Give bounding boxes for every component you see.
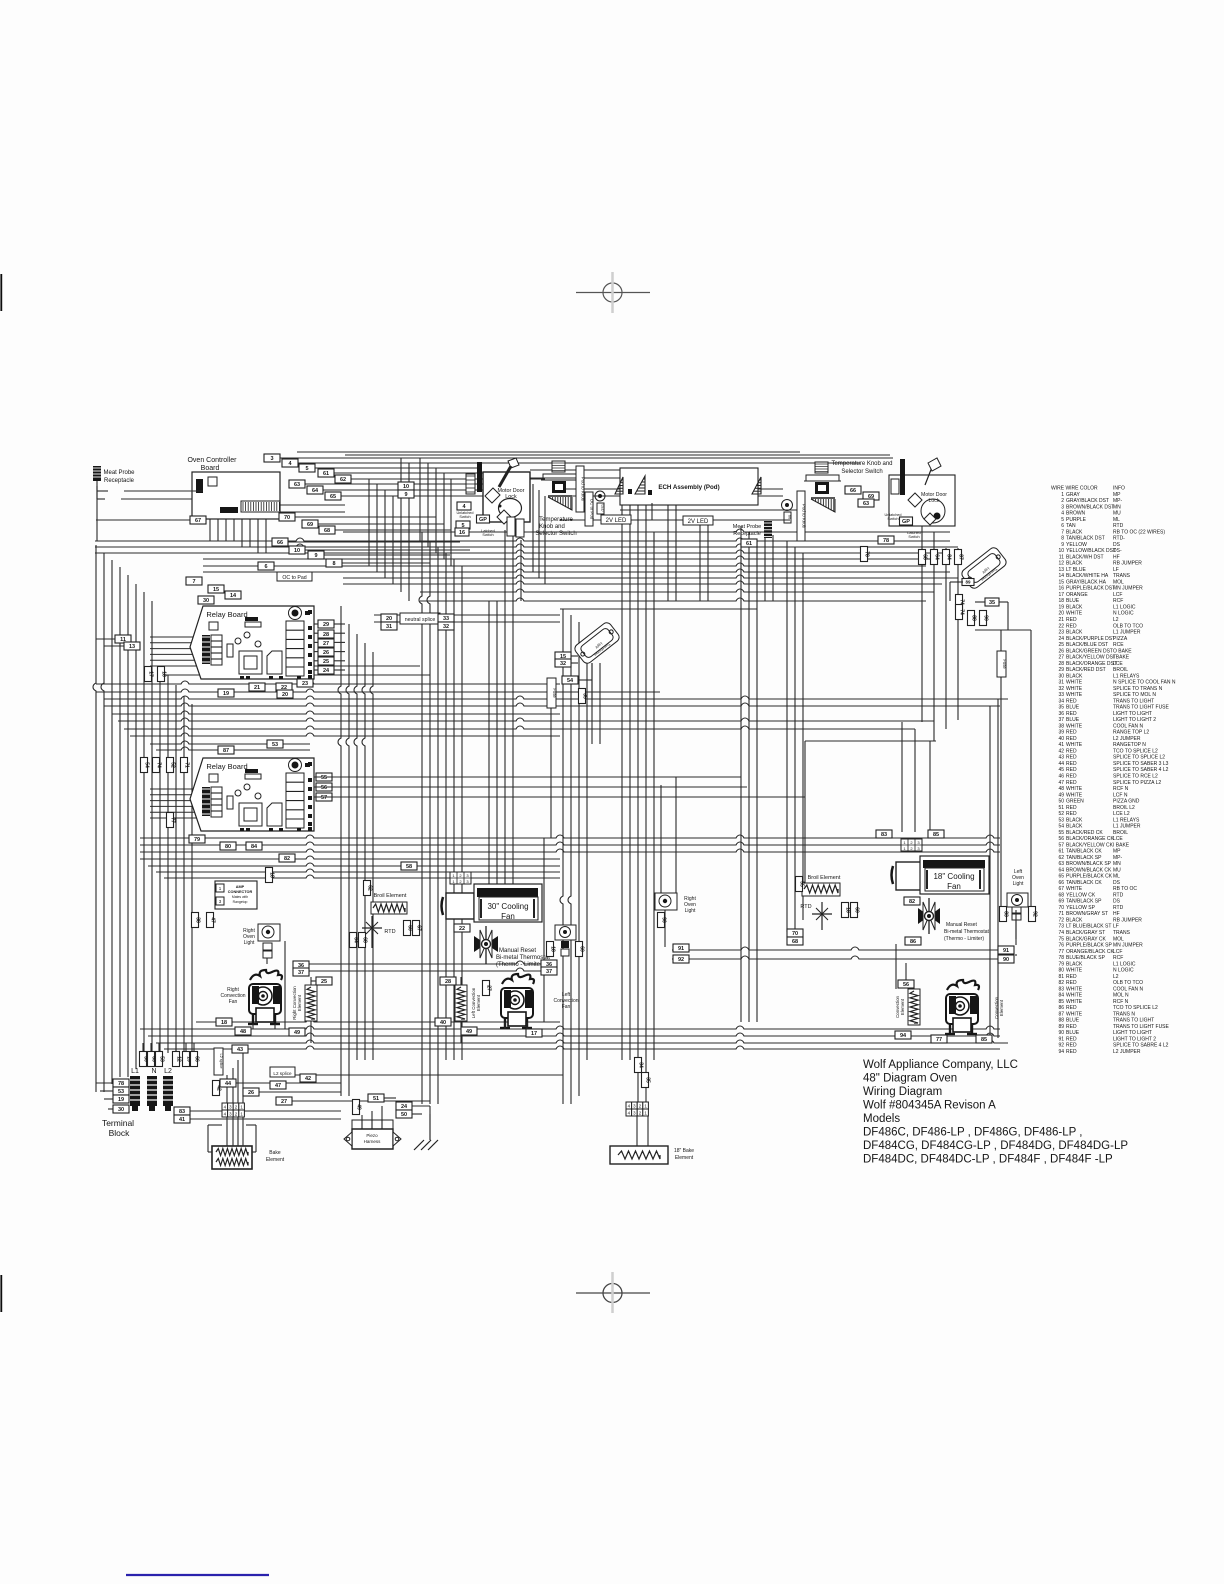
wire bus vertical 3 x=112	[111, 560, 113, 1084]
svg-text:17: 17	[1058, 592, 1064, 598]
wire bus vertical 70 x=159	[158, 1043, 160, 1051]
ref box 62 (broil 1)	[364, 881, 371, 896]
wire from controller pin 6	[305, 483, 500, 485]
svg-text:54: 54	[144, 762, 150, 768]
svg-text:30" Cooling: 30" Cooling	[487, 902, 528, 911]
svg-text:31: 31	[1058, 680, 1064, 686]
svg-text:24: 24	[323, 668, 330, 674]
wire from controller pin 16	[342, 562, 430, 564]
ref box 89 (T2)	[962, 579, 974, 586]
svg-text:90: 90	[1058, 1030, 1064, 1036]
wire bus horizontal 14 y=666	[160, 663, 420, 666]
wire bus vertical 82 x=401	[400, 458, 402, 592]
svg-text:13: 13	[1058, 567, 1064, 573]
svg-text:65: 65	[330, 494, 336, 500]
wire bus vertical 58 x=668	[667, 505, 669, 601]
ref box 60 (broil1)	[404, 921, 411, 936]
wire bus horizontal 12 y=615	[374, 614, 560, 616]
wire bus horizontal 63 y=496	[560, 495, 783, 497]
svg-text:DF484CG, DF484CG-LP , DF484DG,: DF484CG, DF484CG-LP , DF484DG, DF484DG-L…	[863, 1140, 1128, 1152]
terminal block TB1	[102, 1068, 173, 1138]
svg-text:Switch: Switch	[887, 517, 898, 521]
svg-text:OLB TO TCO: OLB TO TCO	[1113, 623, 1143, 629]
ref box 64 (M2 row)	[931, 550, 938, 565]
wire bus horizontal 59 y=512	[210, 511, 345, 513]
piezo spark module A2	[344, 1120, 401, 1149]
wire bus horizontal 18 y=684	[96, 681, 560, 684]
ref box 18b (RB2)	[266, 868, 273, 883]
svg-text:26: 26	[1058, 648, 1064, 654]
svg-text:23: 23	[302, 681, 308, 687]
svg-text:91: 91	[1003, 948, 1009, 954]
wire T2 to boxes	[950, 581, 963, 583]
svg-text:12: 12	[1058, 561, 1064, 567]
svg-text:PURPLE/BLACK SP: PURPLE/BLACK SP	[1066, 943, 1113, 949]
wire drop controller 1	[419, 458, 421, 541]
svg-text:MN JUMPER: MN JUMPER	[1113, 943, 1143, 949]
wire bus horizontal 62 y=489	[560, 488, 783, 490]
svg-text:Manual Reset: Manual Reset	[499, 948, 536, 954]
svg-text:10: 10	[294, 548, 300, 554]
ref box 69 (M2)	[863, 492, 879, 500]
ref box 63 (controller area)	[289, 480, 305, 488]
light transformer T2	[960, 546, 1008, 590]
wire drop controller 4	[443, 473, 445, 559]
svg-text:LIGHT TO LIGHT: LIGHT TO LIGHT	[1113, 711, 1152, 717]
svg-text:O BAKE: O BAKE	[1113, 648, 1132, 654]
svg-text:37: 37	[1058, 717, 1064, 723]
svg-text:RED: RED	[1066, 1024, 1077, 1030]
svg-text:GREEN: GREEN	[1066, 799, 1084, 805]
svg-text:SPLICE TO RCE L2: SPLICE TO RCE L2	[1113, 774, 1158, 780]
svg-text:Light: Light	[244, 940, 255, 946]
svg-text:83: 83	[1003, 911, 1009, 917]
svg-text:Switch: Switch	[908, 535, 919, 539]
svg-text:67: 67	[1058, 886, 1064, 892]
svg-text:53: 53	[159, 1056, 165, 1062]
ref box 27 (bottom)	[276, 1097, 292, 1105]
svg-text:26: 26	[248, 1090, 254, 1096]
wire from controller pin 14	[323, 554, 450, 556]
wire bus horizontal 33 y=859	[140, 856, 560, 859]
ref box 18 (broil 2)	[842, 903, 849, 918]
svg-text:26: 26	[323, 650, 329, 656]
svg-text:85: 85	[981, 1037, 987, 1043]
svg-text:5: 5	[305, 466, 308, 472]
ref box 64 (RTD1)	[350, 933, 357, 948]
svg-text:45: 45	[1058, 767, 1064, 773]
ref box 65 (controller area)	[325, 492, 341, 500]
svg-text:YELLOW CK: YELLOW CK	[1066, 892, 1096, 898]
svg-text:94: 94	[900, 1033, 907, 1039]
ref box 49 (bottom center)	[461, 1027, 477, 1035]
ref box 40 (bottom)	[435, 1018, 451, 1026]
svg-text:DS: DS	[1113, 899, 1121, 905]
svg-text:MN: MN	[1113, 861, 1121, 867]
ref box 68 (RTD2)	[787, 937, 803, 945]
wire bus vertical 21 x=438	[437, 547, 439, 1104]
svg-text:6: 6	[264, 564, 267, 570]
svg-text:18: 18	[1058, 598, 1064, 604]
wire bus vertical 77 x=896	[895, 944, 897, 989]
svg-text:51: 51	[1058, 805, 1064, 811]
svg-text:ORANGE: ORANGE	[1066, 592, 1088, 598]
svg-text:Selector Switch: Selector Switch	[535, 531, 576, 537]
svg-text:42: 42	[1058, 748, 1064, 754]
svg-text:1: 1	[1061, 492, 1064, 498]
wire bus horizontal 28 y=787	[334, 786, 747, 788]
svg-text:TRANS TO LIGHT FUSE: TRANS TO LIGHT FUSE	[1113, 1024, 1170, 1030]
svg-text:34: 34	[1058, 698, 1064, 704]
ref box 54 (T1)	[562, 676, 578, 684]
ref box 9 (top right)	[398, 490, 414, 498]
wire bus vertical 34 x=741	[740, 526, 742, 1022]
registration mark bottom center	[603, 1284, 622, 1303]
svg-text:BLACK/ORANGE DST: BLACK/ORANGE DST	[1066, 661, 1117, 667]
ref box 28 (relay board 1 area)	[318, 630, 334, 638]
pod-to-knob cable label 2	[797, 491, 805, 541]
wire bus vertical 14 x=341	[338, 606, 341, 1096]
svg-text:WHITE: WHITE	[1066, 968, 1083, 974]
svg-text:BROWN/BLACK CK: BROWN/BLACK CK	[1066, 867, 1112, 873]
wire bus horizontal 66 y=520	[711, 519, 790, 521]
wire bus horizontal 8 y=578	[343, 575, 958, 578]
svg-text:MOL: MOL	[1113, 579, 1124, 585]
wire bus horizontal 3 y=547	[95, 544, 958, 547]
ref box 70 (RTD2)	[787, 929, 803, 937]
ref box 6 (controller area)	[258, 562, 274, 570]
wire bus horizontal 34 y=866	[148, 863, 560, 866]
svg-text:63: 63	[294, 482, 300, 488]
svg-text:36: 36	[1058, 711, 1064, 717]
wire bus horizontal 24 y=729	[124, 726, 915, 729]
svg-text:BLACK: BLACK	[1066, 529, 1083, 535]
relay board RB1	[150, 606, 314, 679]
wire bus horizontal 17 y=750	[156, 747, 310, 750]
svg-text:48: 48	[240, 1029, 246, 1035]
ref box 43	[232, 1045, 248, 1053]
svg-text:53: 53	[118, 1089, 124, 1095]
svg-text:L1 LOGIC: L1 LOGIC	[1113, 604, 1136, 610]
wire bus vertical 42 x=805	[804, 741, 806, 883]
svg-text:(Thermo - Limiter): (Thermo - Limiter)	[944, 936, 984, 942]
svg-text:RED: RED	[1066, 811, 1077, 817]
svg-text:7: 7	[192, 579, 195, 585]
svg-text:41: 41	[179, 1117, 185, 1123]
wire bus horizontal 64 y=510	[620, 509, 797, 511]
wire bus vertical 90 x=210	[209, 519, 211, 541]
wire bus vertical 57 x=497	[496, 601, 498, 891]
wire bus vertical 45 x=922	[921, 526, 923, 722]
svg-text:20: 20	[386, 616, 392, 622]
ref box 19 (TB)	[113, 1095, 129, 1103]
svg-text:BLUE: BLUE	[1066, 717, 1080, 723]
svg-text:RB TO OC (22 WIRES): RB TO OC (22 WIRES)	[1113, 529, 1165, 535]
wire left fan feet	[504, 1022, 506, 1029]
svg-text:PURPLE: PURPLE	[1066, 517, 1087, 523]
wire drop controller 7	[538, 490, 540, 578]
svg-text:TRANS: TRANS	[1113, 930, 1131, 936]
svg-text:SPLICE TO MOL N: SPLICE TO MOL N	[1113, 692, 1156, 698]
svg-text:35: 35	[645, 1077, 651, 1083]
wire bus horizontal 5 y=559	[203, 556, 934, 559]
svg-text:RTD-: RTD-	[1113, 536, 1125, 542]
svg-text:YELLOW SP: YELLOW SP	[1066, 905, 1096, 911]
2V LED label 1	[601, 515, 631, 524]
wire bus horizontal 44 y=1043	[156, 1040, 1008, 1043]
wire bus vertical 84 x=765	[764, 530, 766, 601]
svg-text:3: 3	[1061, 504, 1064, 510]
svg-text:55: 55	[799, 881, 805, 887]
svg-text:87: 87	[223, 748, 229, 754]
ref box 9 (controller area)	[308, 551, 324, 559]
wire bus vertical 2 x=104	[101, 553, 104, 1092]
svg-text:40: 40	[1058, 736, 1064, 742]
wire bus vertical 56 x=489	[488, 601, 490, 891]
svg-text:N LOGIC: N LOGIC	[1113, 968, 1134, 974]
wire drop controller 8	[544, 496, 546, 584]
svg-text:68: 68	[324, 528, 330, 534]
svg-text:9: 9	[404, 492, 407, 498]
svg-text:RED: RED	[1066, 974, 1077, 980]
svg-text:Terminal: Terminal	[102, 1118, 134, 1128]
18in cooling fan B2	[892, 856, 990, 894]
svg-text:19: 19	[223, 691, 229, 697]
wire from controller pin 9	[295, 516, 436, 518]
svg-text:70: 70	[1058, 905, 1064, 911]
L2 splice vertical	[214, 1048, 223, 1075]
svg-text:MP-: MP-	[1113, 498, 1123, 504]
svg-text:47: 47	[210, 917, 216, 923]
ref box 47 (bottom)	[270, 1081, 286, 1089]
left margin tick lower	[0, 1275, 2, 1312]
wire bus vertical 55 x=521	[520, 540, 522, 601]
ground symbol	[413, 1114, 439, 1150]
temperature knob and selector switch S1	[535, 461, 578, 537]
ref box 87 (relay board 1 area)	[218, 746, 234, 754]
svg-text:5: 5	[1061, 517, 1064, 523]
wire bus vertical 73 x=194	[193, 1043, 195, 1051]
wire bus horizontal 19 y=692	[96, 689, 660, 692]
svg-text:SPLICE TO PIZZA L2: SPLICE TO PIZZA L2	[1113, 780, 1161, 786]
svg-text:N SPLICE TO COOL FAN N: N SPLICE TO COOL FAN N	[1113, 680, 1176, 686]
svg-text:39: 39	[1058, 730, 1064, 736]
svg-text:L1 JUMPER: L1 JUMPER	[1113, 824, 1141, 830]
manual reset bi-metal thermostat TH1	[474, 926, 550, 968]
svg-text:Fuse: Fuse	[1002, 659, 1007, 669]
30in cooling fan B1	[442, 884, 543, 922]
svg-text:64: 64	[312, 488, 319, 494]
wire bus horizontal 40 y=971	[309, 968, 545, 971]
wire bus vertical 69 x=151	[150, 1043, 152, 1051]
svg-text:27: 27	[323, 641, 329, 647]
svg-text:BLUE: BLUE	[1066, 598, 1080, 604]
wire bus horizontal 23 y=721	[118, 718, 934, 721]
svg-text:neutral splice: neutral splice	[405, 617, 436, 623]
wire bus horizontal 46 y=1083	[96, 1082, 113, 1084]
registration mark top center	[603, 283, 622, 302]
wire from controller pin 10	[318, 523, 444, 525]
wire bus horizontal 30 y=838	[140, 835, 1000, 838]
svg-text:RB TO OC: RB TO OC	[1113, 886, 1137, 892]
meat probe receptacle J1	[93, 466, 135, 499]
ref box 74 (T2)	[956, 595, 963, 610]
svg-text:TAN/BLACK CK: TAN/BLACK CK	[1066, 880, 1102, 886]
svg-text:RB JUMPER: RB JUMPER	[1113, 917, 1142, 923]
svg-text:73: 73	[1058, 924, 1064, 930]
wire bus horizontal 10 y=592	[420, 589, 934, 592]
svg-text:47: 47	[1058, 780, 1064, 786]
wire T1 leads	[571, 655, 578, 657]
svg-text:WHITE: WHITE	[1066, 611, 1083, 617]
wire bus horizontal 9 y=584	[343, 581, 942, 584]
svg-text:MP-: MP-	[1113, 855, 1123, 861]
wire bus vertical 71 x=176	[175, 1043, 177, 1051]
wire color legend table	[1051, 486, 1176, 1055]
wire bus vertical 87 x=233	[232, 1068, 234, 1103]
ref box 83 (TB)	[174, 1107, 190, 1115]
svg-text:28: 28	[323, 632, 329, 638]
wire bus vertical 28 x=587	[586, 663, 588, 1060]
wire bus horizontal 42 y=1029	[140, 1026, 1000, 1029]
svg-text:60: 60	[854, 907, 860, 913]
wire bus horizontal 71 y=455	[345, 454, 890, 456]
wire bus vertical 17 x=365	[362, 643, 365, 1060]
wire bus horizontal 39 y=964	[309, 961, 545, 964]
wire bus horizontal 1 y=532	[343, 529, 950, 532]
neutral splice label	[400, 613, 440, 624]
wire bus vertical 15 x=349	[346, 624, 349, 1096]
svg-text:RED: RED	[1066, 711, 1077, 717]
svg-text:71: 71	[1058, 911, 1064, 917]
svg-text:30: 30	[203, 598, 209, 604]
svg-text:52: 52	[170, 762, 176, 768]
wire bus vertical 49 x=990	[989, 706, 991, 1038]
svg-text:69: 69	[1058, 899, 1064, 905]
ref box 27 (relay board 1 area)	[318, 639, 334, 647]
svg-text:BLACK/BLUE DST: BLACK/BLUE DST	[1066, 642, 1108, 648]
svg-text:MN: MN	[1113, 504, 1121, 510]
svg-text:LT BLUE/BLACK ST: LT BLUE/BLACK ST	[1066, 924, 1111, 930]
svg-text:MN JUMPER: MN JUMPER	[1113, 586, 1143, 592]
bake element E6	[212, 1146, 285, 1169]
svg-text:BROWN/BLACK SP: BROWN/BLACK SP	[1066, 861, 1112, 867]
ref box 15 (T1)	[555, 652, 571, 660]
wire bus horizontal 50 y=1111	[190, 1110, 341, 1112]
wire bus vertical 7 x=144	[143, 592, 145, 1062]
wire bus vertical 35 x=749	[748, 532, 750, 1022]
ref box 86	[905, 937, 921, 945]
ref box 17 (bottom)	[526, 1029, 542, 1037]
ref box 84 (relay board 2 area)	[246, 842, 262, 850]
svg-text:WHITE: WHITE	[1066, 999, 1083, 1005]
ref box 82 (relay board 2 area)	[279, 854, 295, 862]
svg-text:55: 55	[321, 775, 327, 781]
svg-text:YELLOW/BLACK DST: YELLOW/BLACK DST	[1066, 548, 1116, 554]
svg-text:14: 14	[230, 593, 237, 599]
svg-text:BROWN/BLACK DST: BROWN/BLACK DST	[1066, 504, 1114, 510]
wire bus vertical 83 x=409	[408, 463, 410, 601]
svg-text:BLACK/GRAY ST: BLACK/GRAY ST	[1066, 930, 1105, 936]
svg-text:91: 91	[1058, 1036, 1064, 1042]
wire bus horizontal 47 y=1091	[100, 1090, 113, 1092]
svg-text:18: 18	[161, 671, 167, 677]
svg-text:Receptacle: Receptacle	[104, 478, 135, 484]
18in bake element E7	[610, 1146, 694, 1164]
ref box 79 (relay board 2 area)	[189, 835, 205, 843]
ref box 74 (mid row)	[153, 758, 160, 773]
svg-text:58: 58	[406, 864, 412, 870]
wire bus vertical 46 x=934	[933, 532, 935, 741]
svg-text:SPLICE TO SABRE 4 L2: SPLICE TO SABRE 4 L2	[1113, 1043, 1169, 1049]
svg-text:RED: RED	[1066, 1043, 1077, 1049]
svg-text:Light: Light	[685, 908, 696, 914]
wire from controller pin 7	[323, 489, 510, 491]
svg-text:82: 82	[1058, 980, 1064, 986]
svg-text:RANGETOP N: RANGETOP N	[1113, 742, 1146, 748]
svg-text:Broil Element: Broil Element	[808, 875, 841, 881]
right oven light L1	[243, 924, 280, 958]
svg-text:18: 18	[845, 907, 851, 913]
svg-text:BLUE: BLUE	[1066, 1018, 1080, 1024]
ref box 27 (E4)	[483, 981, 490, 996]
svg-text:RTD: RTD	[384, 929, 395, 935]
svg-text:62: 62	[1058, 855, 1064, 861]
svg-text:66: 66	[788, 515, 793, 520]
svg-text:63: 63	[1058, 861, 1064, 867]
wire bus vertical 11 x=176	[175, 685, 177, 1053]
svg-text:25: 25	[321, 979, 327, 985]
ref box 56 (relay board 2 area)	[316, 783, 332, 791]
svg-text:L2: L2	[1113, 974, 1119, 980]
svg-text:76: 76	[1058, 943, 1064, 949]
svg-text:22: 22	[1058, 623, 1064, 629]
svg-text:57: 57	[1058, 842, 1064, 848]
ref box 7 (controller area)	[186, 577, 202, 585]
LED D1	[595, 491, 605, 501]
wire light L4 down	[1015, 920, 1017, 945]
wire bus vertical 85 x=773	[772, 535, 774, 601]
svg-text:92: 92	[678, 957, 684, 963]
ref box 10 (controller area)	[289, 546, 305, 554]
svg-text:72: 72	[1058, 917, 1064, 923]
wire bus vertical 38 x=795	[794, 547, 796, 940]
svg-text:LIGHT TO LIGHT 2: LIGHT TO LIGHT 2	[1113, 1036, 1156, 1042]
ref box 67 (broil1)	[413, 921, 420, 936]
wire bus horizontal 60 y=470	[530, 469, 620, 471]
ref box 90 (right)	[998, 955, 1014, 963]
svg-text:Pod to Knob: Pod to Knob	[802, 504, 807, 529]
wire bus horizontal 38 y=959	[672, 956, 998, 959]
ref box 77 (RB2)	[167, 813, 174, 828]
svg-text:Meat Probe: Meat Probe	[103, 470, 135, 476]
svg-text:80: 80	[225, 844, 231, 850]
svg-text:66: 66	[1058, 880, 1064, 886]
svg-text:44: 44	[225, 1081, 232, 1087]
fuse F2	[997, 651, 1006, 677]
ref box 83 (light L4)	[1000, 907, 1007, 922]
svg-text:WHITE: WHITE	[1066, 993, 1083, 999]
ref box 26 (bottom)	[243, 1088, 259, 1096]
wire bus vertical 67 x=803	[802, 553, 804, 920]
ref box 18 (RB1)	[158, 667, 165, 682]
ref box 78 (M2)	[878, 536, 894, 544]
svg-text:L2 splice: L2 splice	[273, 1071, 292, 1076]
wire bus vertical 37 x=787	[786, 541, 788, 932]
svg-text:84: 84	[946, 554, 952, 560]
svg-text:RB JUMPER: RB JUMPER	[1113, 561, 1142, 567]
ref box 30 (TB)	[113, 1105, 129, 1113]
